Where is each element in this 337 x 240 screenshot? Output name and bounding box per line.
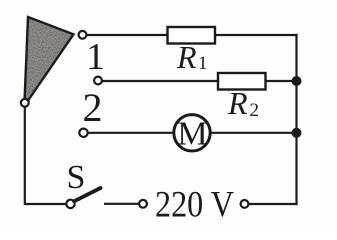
selector wedge (gray triangle arm) [24,17,73,106]
junction dot row3/right rail [292,128,302,138]
right rail [295,34,297,205]
wire row1 right [215,34,298,36]
resistor R1 [168,27,216,44]
terminal row3 circle [79,129,87,137]
wire row1 left [87,34,168,36]
svg-text:1: 1 [86,36,105,78]
svg-text:220 V: 220 V [155,185,234,226]
wire row3 right [211,132,297,134]
svg-text:1: 1 [198,53,208,74]
switch S pivot circle [66,200,74,208]
terminal 1 circle [79,31,87,39]
svg-text:R: R [176,39,197,75]
svg-text:2: 2 [83,85,103,130]
terminal at wedge tip [21,99,29,107]
switch S blade [74,188,101,201]
right supply terminal circle [241,200,249,208]
svg-text:R: R [227,85,248,121]
resistor R2 [218,73,266,90]
wire to left supply terminal [104,203,139,205]
svg-text:S: S [67,159,86,196]
wire row2 left [102,80,218,82]
svg-text:2: 2 [250,100,260,121]
wire row3 left [88,132,173,134]
left supply terminal circle [139,200,147,208]
left rail + bottom-left wire [25,107,67,204]
terminal 2 circle [94,77,102,85]
motor M [174,115,210,151]
wire row2 right [266,80,297,82]
bottom-right wire [249,203,298,205]
svg-text:M: M [177,116,207,153]
junction dot row2/right rail [292,76,302,86]
